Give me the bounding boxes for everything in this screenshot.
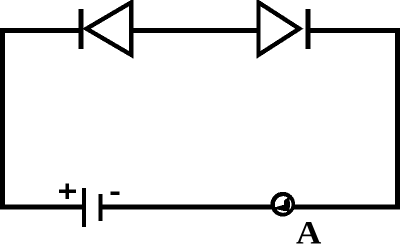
diode D2 triangle (pointing right) <box>259 2 300 55</box>
ammeter circle (outer ring) <box>270 192 295 217</box>
wire top-left segment <box>0 28 80 33</box>
diode D1 cathode bar <box>79 9 84 49</box>
diode D2 cathode bar <box>306 9 311 49</box>
wire left vertical <box>0 28 5 210</box>
ammeter circle (inner face) <box>275 196 292 213</box>
wire top-middle segment <box>130 28 258 33</box>
battery negative plate <box>99 194 103 221</box>
wire bottom-middle segment <box>102 205 273 210</box>
svg-text:A: A <box>296 216 321 245</box>
label - (battery negative) <box>110 191 119 195</box>
wire right vertical <box>395 28 400 210</box>
battery positive plate <box>82 188 86 227</box>
wire bottom-right segment <box>293 205 400 210</box>
label + (battery positive) <box>59 184 76 199</box>
wire top-right segment <box>308 28 400 33</box>
ammeter needle <box>272 197 290 212</box>
diode D1 triangle (pointing left) <box>87 2 132 55</box>
wire bottom-left segment <box>0 205 83 210</box>
